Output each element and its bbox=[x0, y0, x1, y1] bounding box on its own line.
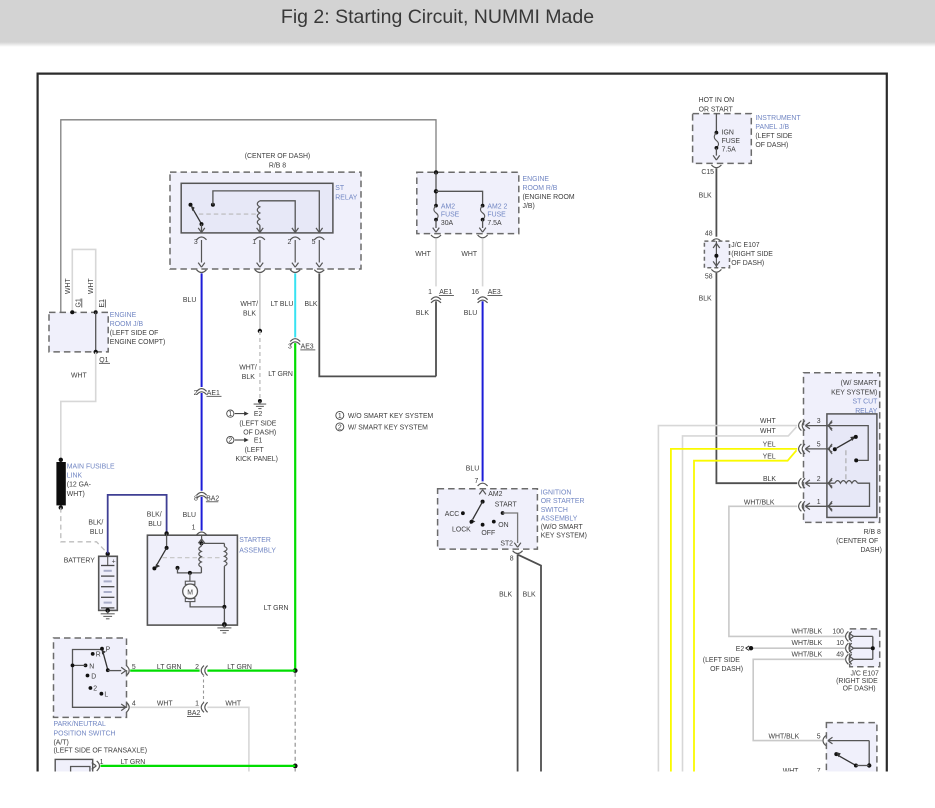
connector 2 (BA2) on LT GRN bbox=[201, 666, 204, 676]
svg-text:WHT/BLK: WHT/BLK bbox=[744, 500, 775, 507]
svg-text:49: 49 bbox=[836, 651, 844, 658]
wire: BLU from ST relay pin 3 bbox=[201, 273, 203, 387]
ground: battery negative bbox=[107, 610, 109, 613]
fuse AM2 2 7.5A bbox=[481, 204, 485, 208]
wire: WHT pin4 to BA2 and down bbox=[130, 706, 199, 708]
svg-text:58: 58 bbox=[705, 273, 713, 280]
switch block: lower right (partial, cut) bbox=[826, 723, 877, 775]
wire: BLU AE1 to BA2 bbox=[201, 393, 203, 491]
wire: LT GRN to lower junction bbox=[101, 765, 296, 767]
wire: dashed segment below junction bbox=[294, 673, 296, 766]
svg-text:WHT: WHT bbox=[760, 418, 776, 425]
svg-text:MAIN FUSIBLE: MAIN FUSIBLE bbox=[67, 463, 115, 470]
svg-text:ASSEMBLY: ASSEMBLY bbox=[541, 515, 578, 522]
ST relay pin5 contact and link bbox=[211, 203, 215, 207]
svg-text:BLK: BLK bbox=[699, 192, 712, 199]
ST CUT relay pin 1 bbox=[806, 505, 827, 507]
ground E2 (left side of dash) bbox=[258, 399, 262, 403]
svg-text:WHT: WHT bbox=[157, 701, 173, 708]
node: WHT/BLK junction bbox=[258, 329, 262, 333]
svg-text:POSITION SWITCH: POSITION SWITCH bbox=[54, 730, 116, 737]
position L bbox=[100, 692, 104, 696]
svg-text:LT GRN: LT GRN bbox=[157, 664, 182, 671]
svg-text:BLK: BLK bbox=[499, 591, 512, 598]
svg-text:2: 2 bbox=[93, 685, 97, 692]
svg-text:1: 1 bbox=[338, 413, 342, 420]
connector 100 bbox=[846, 631, 849, 641]
svg-text:RELAY: RELAY bbox=[335, 194, 357, 201]
switch block: bottom left (partial, cut) bbox=[55, 759, 92, 774]
node Q1 bbox=[94, 350, 98, 354]
junction block: J/C E107 lower bbox=[850, 629, 880, 667]
pin 4 exit bbox=[121, 704, 126, 711]
svg-text:BLK: BLK bbox=[523, 591, 536, 598]
svg-text:BLU: BLU bbox=[90, 529, 103, 536]
svg-text:(LEFT SIDE: (LEFT SIDE bbox=[755, 133, 792, 140]
svg-text:AE3: AE3 bbox=[301, 343, 314, 350]
svg-text:WHT): WHT) bbox=[67, 491, 85, 498]
svg-text:P: P bbox=[106, 646, 111, 653]
connector 1 (BA2) on WHT bbox=[201, 702, 204, 712]
junction block: INSTRUMENT PANEL J/B bbox=[693, 114, 752, 164]
svg-text:OR STARTER: OR STARTER bbox=[541, 498, 585, 505]
svg-text:BLU: BLU bbox=[466, 465, 479, 472]
fuse AM2 30A bbox=[434, 204, 438, 208]
svg-text:7: 7 bbox=[474, 478, 478, 485]
svg-text:BLK: BLK bbox=[416, 310, 429, 317]
wire: BLU AE3 to ignition switch bbox=[482, 301, 484, 481]
main fusible link (12 GA-WHT) bbox=[59, 458, 63, 462]
svg-text:3: 3 bbox=[817, 418, 821, 425]
bottom cut (white) bbox=[0, 772, 935, 808]
svg-text:FUSE: FUSE bbox=[441, 212, 460, 219]
svg-text:L: L bbox=[104, 691, 108, 698]
wire: WHT from AM2 2 fuse bbox=[482, 238, 484, 286]
wire: LT GRN main vertical bbox=[294, 343, 296, 670]
svg-text:LT GRN: LT GRN bbox=[268, 371, 293, 378]
svg-text:BATTERY: BATTERY bbox=[64, 557, 96, 564]
svg-text:WHT/: WHT/ bbox=[240, 301, 258, 308]
wire: START to ST2 bbox=[503, 513, 518, 543]
svg-text:E2: E2 bbox=[736, 646, 745, 653]
svg-text:10: 10 bbox=[836, 640, 844, 647]
node E1 bbox=[94, 310, 98, 314]
node G1 bbox=[70, 310, 74, 314]
svg-text:N: N bbox=[89, 663, 94, 670]
svg-text:DASH): DASH) bbox=[860, 547, 881, 554]
wire continues bbox=[207, 669, 295, 671]
connector 49 bbox=[846, 654, 849, 664]
svg-text:J/B): J/B) bbox=[523, 203, 535, 210]
svg-text:D: D bbox=[91, 673, 96, 680]
ST CUT relay inner box bbox=[827, 414, 877, 518]
wire: BLK from ST relay pin 5 to AE1 bbox=[319, 273, 436, 376]
svg-text:+: + bbox=[112, 559, 116, 566]
legend: smart key variants bbox=[336, 411, 344, 419]
svg-text:ENGINE COMPT): ENGINE COMPT) bbox=[110, 339, 166, 346]
wire: WHT feed loop from G1 to Engine Room R/B bbox=[61, 120, 436, 331]
ignition switch contacts bbox=[481, 500, 485, 504]
svg-text:16: 16 bbox=[471, 289, 479, 296]
ST relay contacts bbox=[189, 203, 193, 207]
svg-text:ENGINE: ENGINE bbox=[110, 312, 137, 319]
svg-text:M: M bbox=[187, 589, 193, 596]
svg-text:R: R bbox=[96, 652, 101, 659]
wire: WHT 1 from ST CUT pin 3 bbox=[658, 426, 797, 772]
ST relay pin arrows bbox=[198, 228, 205, 233]
svg-text:FUSE: FUSE bbox=[487, 212, 506, 219]
dashed connector link BA2 bbox=[203, 674, 205, 703]
starter solenoid switch bbox=[165, 546, 169, 550]
wire: WHT/BLK from ST relay pin 1 bbox=[259, 273, 261, 331]
ST relay pin3 lead bbox=[201, 224, 203, 233]
svg-text:BLU: BLU bbox=[148, 521, 161, 528]
svg-text:ON: ON bbox=[498, 522, 508, 529]
svg-text:LT GRN: LT GRN bbox=[227, 664, 252, 671]
svg-text:KEY SYSTEM): KEY SYSTEM) bbox=[831, 389, 877, 396]
svg-text:WHT/BLK: WHT/BLK bbox=[792, 640, 823, 647]
ST CUT relay mech link dashed bbox=[845, 450, 847, 481]
svg-text:AM2 2: AM2 2 bbox=[487, 203, 507, 210]
wire: BLK/BLU battery to starter bbox=[108, 495, 167, 554]
svg-text:BLK/: BLK/ bbox=[147, 512, 162, 519]
wire: WHT/BLK from 49 down to lower switch bbox=[753, 659, 845, 740]
node: LT GRN junction lower bbox=[293, 764, 298, 769]
node: feed junction at R/B top bbox=[434, 170, 438, 174]
svg-text:BLU: BLU bbox=[183, 297, 196, 304]
position ON bbox=[492, 520, 496, 524]
wire: YEL 1 from ST CUT pin 5 bbox=[671, 449, 797, 772]
svg-text:OF DASH): OF DASH) bbox=[843, 685, 876, 692]
svg-text:R/B 8: R/B 8 bbox=[269, 162, 286, 169]
svg-text:2: 2 bbox=[195, 664, 199, 671]
switch block: PARK/NEUTRAL POSITION SWITCH bbox=[54, 638, 127, 717]
connector 58 bbox=[711, 269, 721, 272]
svg-text:WHT: WHT bbox=[760, 428, 776, 435]
switch block: IGNITION OR STARTER SWITCH ASSEMBLY bbox=[438, 489, 538, 549]
svg-text:(RIGHT SIDE: (RIGHT SIDE bbox=[836, 678, 878, 685]
svg-text:OR START: OR START bbox=[699, 106, 734, 113]
junction block: ENGINE ROOM J/B (left) bbox=[49, 312, 108, 352]
svg-text:1: 1 bbox=[252, 239, 256, 246]
svg-text:(LEFT SIDE: (LEFT SIDE bbox=[703, 657, 740, 664]
svg-text:J/C E107: J/C E107 bbox=[850, 670, 879, 677]
svg-text:WHT: WHT bbox=[88, 278, 95, 294]
position N bbox=[84, 664, 88, 668]
svg-text:WHT/BLK: WHT/BLK bbox=[792, 628, 823, 635]
svg-text:ENGINE: ENGINE bbox=[523, 176, 550, 183]
battery bbox=[106, 552, 110, 556]
svg-text:2: 2 bbox=[228, 437, 232, 444]
ST relay pin connectors 3,1,2,5 bbox=[197, 237, 207, 240]
svg-text:LT BLU: LT BLU bbox=[271, 301, 294, 308]
wire: E1 to Q1 inside J/B bbox=[95, 312, 97, 352]
svg-text:(CENTER OF: (CENTER OF bbox=[836, 538, 878, 545]
starter main contact bbox=[176, 566, 180, 570]
relay block: ST CUT RELAY (w/ smart key system) bbox=[804, 373, 880, 523]
wire: WHT from AM2 fuse bbox=[435, 238, 437, 286]
junction block: J/C E107 (right side of dash) bbox=[704, 241, 729, 268]
svg-text:WHT: WHT bbox=[415, 251, 431, 258]
wire: WHT/BLK dashed to ground E2 bbox=[259, 331, 261, 399]
ST CUT relay internal contact from pin 3 bbox=[827, 426, 868, 461]
svg-text:(A/T): (A/T) bbox=[54, 740, 69, 747]
wire: BLK AE1 down to pin5 path bbox=[435, 301, 437, 376]
connector 8 at ST2 bbox=[513, 551, 523, 554]
svg-text:5: 5 bbox=[817, 442, 821, 449]
svg-text:BLK: BLK bbox=[242, 374, 255, 381]
svg-text:INSTRUMENT: INSTRUMENT bbox=[755, 115, 801, 122]
svg-text:ROOM R/B: ROOM R/B bbox=[523, 185, 558, 192]
wire: BLK right from connector 8 bbox=[518, 555, 541, 772]
ground: starter assembly bbox=[222, 622, 227, 627]
svg-text:2: 2 bbox=[817, 476, 821, 483]
svg-text:ASSEMBLY: ASSEMBLY bbox=[239, 547, 276, 554]
svg-text:BLU: BLU bbox=[464, 310, 477, 317]
svg-text:8: 8 bbox=[194, 495, 198, 502]
svg-text:2: 2 bbox=[288, 239, 292, 246]
svg-text:C15: C15 bbox=[701, 169, 714, 176]
starter block: STARTER ASSEMBLY bbox=[147, 535, 237, 625]
wire: feed to fuses bbox=[435, 172, 437, 205]
svg-text:E1: E1 bbox=[254, 438, 263, 445]
svg-text:J/C E107: J/C E107 bbox=[731, 242, 760, 249]
wire: BLK C15 to 48 bbox=[715, 168, 717, 236]
connector 2 AE1 bbox=[197, 389, 207, 392]
wire: WHT jumper G1 to E1 bbox=[72, 249, 95, 312]
svg-text:START: START bbox=[495, 501, 518, 508]
svg-text:(12 GA-: (12 GA- bbox=[67, 482, 91, 489]
svg-text:BLK: BLK bbox=[699, 295, 712, 302]
svg-text:7.5A: 7.5A bbox=[487, 220, 502, 227]
svg-text:3: 3 bbox=[288, 343, 292, 350]
svg-text:SWITCH: SWITCH bbox=[541, 507, 568, 514]
svg-text:KICK PANEL): KICK PANEL) bbox=[236, 456, 278, 463]
svg-text:2: 2 bbox=[338, 425, 342, 432]
svg-text:Fig 2: Starting Circuit, NUMMI: Fig 2: Starting Circuit, NUMMI Made bbox=[281, 6, 594, 28]
position 2 bbox=[89, 686, 93, 690]
svg-text:5: 5 bbox=[817, 734, 821, 741]
svg-text:1: 1 bbox=[192, 525, 196, 532]
wire: WHT/BLK from E2 flag bbox=[753, 647, 845, 649]
junction block: ENGINE ROOM R/B bbox=[417, 172, 519, 233]
svg-text:HOT IN ON: HOT IN ON bbox=[699, 97, 734, 104]
starter pull-in coil bbox=[199, 546, 202, 567]
svg-text:AE3: AE3 bbox=[488, 289, 501, 296]
pin 1 exit bbox=[92, 763, 97, 770]
svg-text:5: 5 bbox=[312, 239, 316, 246]
svg-text:AM2: AM2 bbox=[441, 203, 455, 210]
svg-text:(LEFT SIDE OF: (LEFT SIDE OF bbox=[110, 330, 159, 337]
node inside J/C E107 bbox=[714, 254, 718, 258]
J/C E107 internal bus bbox=[872, 636, 874, 659]
svg-text:WHT/: WHT/ bbox=[239, 365, 257, 372]
ST relay mechanical link (dashed) bbox=[199, 213, 256, 215]
position LOCK bbox=[470, 520, 474, 524]
wire: WHT from Q1 to main fusible link bbox=[61, 352, 96, 459]
svg-text:OFF: OFF bbox=[481, 530, 495, 537]
wire: BLK 58 to ST CUT relay pin 2 bbox=[716, 273, 797, 483]
wire continues bbox=[207, 707, 249, 771]
lower switch contacts bbox=[868, 741, 870, 766]
position ACC bbox=[461, 511, 465, 515]
svg-text:AM2: AM2 bbox=[488, 491, 502, 498]
pin 5 exit bbox=[108, 670, 121, 672]
svg-text:(LEFT SIDE: (LEFT SIDE bbox=[239, 420, 276, 427]
svg-text:YEL: YEL bbox=[763, 454, 776, 461]
svg-text:ACC: ACC bbox=[445, 511, 460, 518]
ST relay coil bbox=[257, 201, 260, 225]
node: motor/coil junction bbox=[222, 605, 226, 609]
starter pin 1 entry bbox=[198, 539, 205, 543]
svg-text:PANEL J/B: PANEL J/B bbox=[755, 124, 789, 131]
connector 10 with E2 flag bbox=[846, 643, 849, 653]
svg-text:OF DASH): OF DASH) bbox=[710, 666, 743, 673]
svg-text:48: 48 bbox=[705, 230, 713, 237]
wire: BLK left from connector 8 bbox=[517, 554, 519, 771]
position R bbox=[91, 652, 95, 656]
svg-text:LINK: LINK bbox=[67, 473, 83, 480]
svg-text:AE1: AE1 bbox=[207, 390, 220, 397]
wire: dashed link to battery positive bbox=[61, 508, 108, 554]
ST CUT relay pin 5 bbox=[806, 448, 827, 450]
svg-text:100: 100 bbox=[832, 628, 844, 635]
connector 5 bbox=[823, 736, 826, 746]
svg-text:1: 1 bbox=[817, 499, 821, 506]
svg-text:ST CUT: ST CUT bbox=[853, 399, 879, 406]
svg-text:8: 8 bbox=[510, 556, 514, 563]
legend marker 2 to E1 bbox=[227, 436, 234, 443]
position P bbox=[100, 647, 104, 651]
svg-text:(RIGHT SIDE: (RIGHT SIDE bbox=[731, 251, 773, 258]
node: battery feed at starter bbox=[164, 531, 168, 535]
svg-text:(LEFT: (LEFT bbox=[245, 447, 265, 454]
svg-text:ST2: ST2 bbox=[500, 540, 513, 547]
wire: LT BLU from ST relay pin 2 bbox=[294, 273, 296, 337]
svg-text:BLU: BLU bbox=[183, 512, 196, 519]
connector C15 bbox=[711, 165, 721, 168]
ST CUT relay coil bbox=[827, 482, 835, 484]
connector 3 AE3 bbox=[290, 339, 300, 342]
wire into IGN fuse bbox=[715, 114, 717, 133]
svg-text:OF DASH): OF DASH) bbox=[755, 142, 788, 149]
svg-text:BA2: BA2 bbox=[187, 710, 200, 717]
svg-text:30A: 30A bbox=[441, 220, 454, 227]
svg-text:(LEFT SIDE OF TRANSAXLE): (LEFT SIDE OF TRANSAXLE) bbox=[54, 747, 148, 754]
ST CUT relay switch arm bbox=[833, 447, 837, 451]
wire: LT GRN pin5 to junction bbox=[130, 669, 199, 671]
svg-text:7.5A: 7.5A bbox=[722, 146, 737, 153]
svg-text:1: 1 bbox=[228, 411, 232, 418]
relay ST RELAY inner box bbox=[181, 183, 333, 233]
node: LT GRN junction at park/neutral bbox=[293, 668, 298, 673]
svg-text:STARTER: STARTER bbox=[239, 537, 271, 544]
svg-text:FUSE: FUSE bbox=[722, 138, 741, 145]
starter motor M bbox=[189, 573, 191, 581]
svg-text:W/O SMART KEY SYSTEM: W/O SMART KEY SYSTEM bbox=[348, 413, 434, 420]
position START bbox=[501, 511, 505, 515]
park/neutral switch arm bbox=[103, 652, 108, 670]
fuse IGN 7.5A bbox=[715, 131, 719, 135]
svg-text:BA2: BA2 bbox=[206, 495, 219, 502]
legend marker 1 to E2 bbox=[227, 410, 234, 417]
svg-text:(W/O SMART: (W/O SMART bbox=[541, 524, 584, 531]
svg-text:IGNITION: IGNITION bbox=[541, 490, 572, 497]
connector 8 BA2 bbox=[197, 492, 207, 495]
svg-text:BLK: BLK bbox=[243, 310, 256, 317]
svg-text:IGN: IGN bbox=[722, 130, 734, 137]
svg-text:(CENTER OF DASH): (CENTER OF DASH) bbox=[245, 153, 310, 160]
svg-text:LT GRN: LT GRN bbox=[264, 605, 289, 612]
svg-text:1: 1 bbox=[428, 289, 432, 296]
wire: YEL 2 from ST CUT pin 5 bbox=[694, 450, 797, 771]
wire: BLU BA2 to starter pin 1 bbox=[201, 497, 203, 531]
svg-text:WHT: WHT bbox=[71, 373, 87, 380]
svg-text:AE1: AE1 bbox=[439, 289, 452, 296]
svg-text:LOCK: LOCK bbox=[452, 527, 471, 534]
svg-text:Q1: Q1 bbox=[99, 357, 108, 364]
wire: WHT/BLK from ST CUT pin 1 to J/C E107 bbox=[729, 506, 845, 636]
svg-text:(ENGINE ROOM: (ENGINE ROOM bbox=[523, 194, 575, 201]
svg-text:YEL: YEL bbox=[763, 441, 776, 448]
svg-text:WHT: WHT bbox=[461, 251, 477, 258]
position D bbox=[86, 674, 90, 678]
svg-text:W/ SMART KEY SYSTEM: W/ SMART KEY SYSTEM bbox=[348, 425, 428, 432]
svg-text:KEY SYSTEM): KEY SYSTEM) bbox=[541, 533, 587, 540]
svg-text:OF DASH): OF DASH) bbox=[731, 260, 764, 267]
svg-text:R/B 8: R/B 8 bbox=[864, 529, 881, 536]
starter hold coil bbox=[201, 542, 224, 544]
svg-text:PARK/NEUTRAL: PARK/NEUTRAL bbox=[54, 721, 106, 728]
svg-text:E2: E2 bbox=[254, 411, 263, 418]
svg-text:WHT/BLK: WHT/BLK bbox=[769, 734, 800, 741]
svg-text:OF DASH): OF DASH) bbox=[243, 430, 276, 437]
svg-text:BLK/: BLK/ bbox=[88, 519, 103, 526]
svg-text:BLK: BLK bbox=[763, 476, 776, 483]
wire: WHT 2 from ST CUT pin 3 bbox=[683, 427, 797, 772]
ST CUT relay pin 3 bbox=[806, 425, 827, 427]
svg-text:2: 2 bbox=[194, 390, 198, 397]
svg-text:ROOM J/B: ROOM J/B bbox=[110, 321, 144, 328]
svg-text:ST: ST bbox=[335, 185, 345, 192]
svg-text:3: 3 bbox=[194, 239, 198, 246]
svg-text:BLK: BLK bbox=[305, 301, 318, 308]
svg-text:WHT: WHT bbox=[225, 701, 241, 708]
ST CUT relay pin 2 bbox=[806, 482, 827, 484]
svg-text:WHT/BLK: WHT/BLK bbox=[792, 651, 823, 658]
connector exits below R/B bbox=[431, 235, 441, 238]
starter mech link dashed bbox=[163, 557, 222, 559]
svg-text:(W/ SMART: (W/ SMART bbox=[841, 380, 878, 387]
diagram border frame bbox=[38, 74, 887, 772]
svg-text:1: 1 bbox=[195, 701, 199, 708]
svg-text:WHT: WHT bbox=[65, 278, 72, 294]
position OFF bbox=[481, 523, 485, 527]
